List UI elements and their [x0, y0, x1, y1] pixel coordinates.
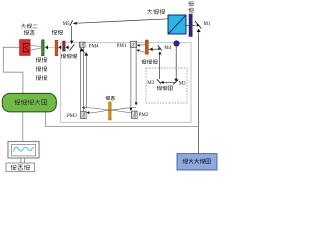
svg-text:PM2: PM2	[139, 113, 149, 118]
laser box	[177, 154, 217, 170]
THz return beam up into PM4	[85, 55, 87, 108]
junction circle under cube	[173, 40, 179, 46]
svg-text:PM3: PM3	[67, 114, 77, 119]
wire: photodiode to lock-in amplifier	[3, 47, 23, 94]
ZnTe detector bar (left)	[63, 41, 66, 51]
wire: lock-in to computer	[22, 112, 24, 142]
beam: M3 up to M4	[159, 53, 161, 79]
svg-text:PM4: PM4	[89, 44, 99, 49]
label photodiode (2 lines)	[21, 24, 25, 29]
glass plate (vertical navy bar)	[189, 14, 192, 37]
svg-text:M5: M5	[63, 22, 70, 27]
sine wave on screen	[14, 147, 34, 151]
mirror M2	[173, 80, 178, 85]
label yangpin (sample)	[106, 96, 110, 100]
beam: M4 left to ZnTe emitter	[149, 48, 159, 50]
mirror M4	[158, 45, 162, 50]
svg-text:M2: M2	[179, 82, 186, 87]
beam: laser up to M1	[197, 31, 199, 154]
label Wollaston prism (3 lines)	[36, 58, 41, 63]
beam segment to Wollaston prism	[44, 46, 55, 48]
svg-text:M4: M4	[164, 46, 171, 51]
wire: lock-in to laser line	[46, 112, 199, 127]
focused THz beams through sample	[85, 108, 132, 113]
ZnTe emitter bar (right)	[145, 40, 148, 54]
THz rays PM3 up to PM4	[79, 47, 81, 111]
beam cone into photodiode	[30, 45, 42, 47]
mirror M5	[70, 20, 73, 26]
beam: circle down to M2	[175, 47, 177, 80]
label dihuaxin right	[141, 60, 146, 65]
beams: emitter cone into PM1	[137, 44, 145, 47]
probe beam row: mirror to ZnTe	[65, 46, 70, 48]
beam: M5 down	[71, 26, 73, 44]
svg-text:M3: M3	[147, 81, 154, 86]
parabolic mirror PM1	[130, 41, 136, 47]
beam: cube to M5 (sloped)	[77, 19, 169, 23]
photodiode red box	[20, 40, 31, 56]
computer base box	[6, 163, 35, 172]
beam M2 to M3	[160, 81, 174, 83]
monitor stand	[21, 158, 25, 163]
label boli pian (vertical)	[188, 2, 193, 7]
beam splitter cube	[168, 15, 186, 34]
arrow up into M1	[197, 29, 201, 32]
label fenshujing	[147, 9, 152, 14]
parabolic mirror PM3	[81, 111, 87, 118]
parabolic mirror PM4	[79, 42, 85, 47]
svg-text:M1: M1	[204, 22, 211, 27]
label bopian (waveplate)	[52, 30, 57, 35]
sample bar	[109, 102, 112, 120]
waveplate orange bar	[55, 40, 58, 56]
lock-in amplifier green box	[2, 93, 56, 111]
mirror M3	[157, 79, 161, 83]
delay stage dashed box	[146, 68, 187, 103]
beam: M1 left through glass plate to cube	[186, 24, 195, 26]
label yanchiqi (delay)	[157, 86, 162, 91]
parabolic mirror PM2	[132, 111, 138, 118]
THz rays PM1 down to PM2	[130, 48, 132, 111]
chamber box (inner optics enclosure)	[61, 43, 191, 123]
mirror at probe row (fold)	[70, 44, 75, 50]
computer monitor	[8, 142, 39, 159]
mirror M1	[195, 21, 201, 29]
label dihuaxin left	[61, 54, 66, 59]
Wollaston prism green bar	[42, 40, 45, 56]
beam segment to waveplate	[58, 46, 62, 48]
svg-text:PM1: PM1	[117, 44, 127, 49]
